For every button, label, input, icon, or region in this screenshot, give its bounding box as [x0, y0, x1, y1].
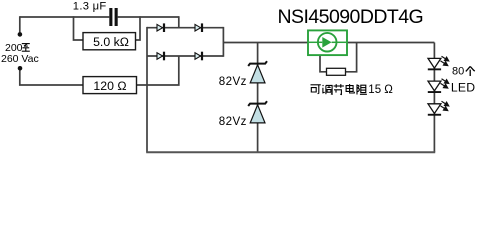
- svg-text:15 Ω: 15 Ω: [368, 84, 393, 96]
- svg-text:NSI45090DDT4G: NSI45090DDT4G: [278, 6, 424, 28]
- svg-text:5.0 kΩ: 5.0 kΩ: [93, 35, 129, 49]
- svg-text:80: 80: [452, 66, 464, 78]
- svg-text:82Vz: 82Vz: [219, 115, 247, 128]
- svg-text:82Vz: 82Vz: [219, 75, 247, 88]
- svg-text:1.3 μF: 1.3 μF: [73, 0, 107, 12]
- svg-text:LED: LED: [451, 81, 475, 95]
- svg-text:260 Vac: 260 Vac: [1, 53, 39, 65]
- svg-text:120 Ω: 120 Ω: [93, 79, 126, 93]
